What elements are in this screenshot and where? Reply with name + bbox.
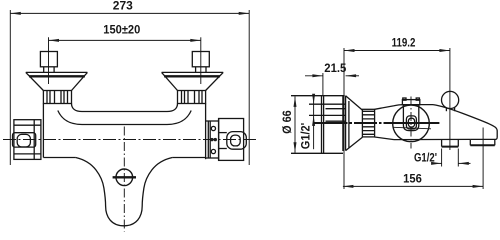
- right end cap grip pill: [227, 132, 247, 150]
- left wall union stem cap: [40, 52, 57, 67]
- knob / shower outlet axis extension: [449, 48, 451, 150]
- spout outlet nozzle block: [469, 139, 471, 145]
- dimension 150±20 arrow right: [190, 39, 201, 42]
- svg-text:119.2: 119.2: [392, 35, 416, 49]
- right end cap grip inner pill: [231, 135, 241, 146]
- right end cap grip horizontals: [219, 132, 227, 134]
- side body crosshair bold: [391, 122, 439, 124]
- right union nut: [178, 91, 206, 104]
- cartridge inner rounded rect: [408, 118, 414, 127]
- body top slope to spout tip: [433, 105, 497, 140]
- dimension 273 line: [10, 10, 249, 165]
- right end cap outer rect: [219, 119, 244, 161]
- dimension 119.2 line: [344, 48, 450, 189]
- left wall union stem neck: [43, 67, 45, 73]
- right union nut knurl lines: [182, 91, 203, 104]
- dimension 21.5 arrows: [312, 74, 323, 77]
- cartridge pill: [403, 105, 418, 131]
- right escutcheon flange slants: [162, 72, 178, 90]
- dimension Ø66 line segments: [294, 96, 296, 152]
- bell cover bottom edge (with Ø66 bottom extension): [291, 152, 343, 154]
- dimension 150±20 arrow left: [49, 39, 60, 42]
- bell rim verticals: [342, 96, 344, 151]
- dimension 150±20 line: [49, 37, 201, 84]
- cartridge mid rounded rect: [406, 116, 416, 129]
- cartridge vertical centerline: [410, 97, 412, 149]
- G1/2 shower outlet callout: [432, 149, 471, 167]
- left union nut knurl lines: [47, 91, 68, 104]
- seam chord: [394, 127, 432, 129]
- left end cap divider: [33, 120, 35, 160]
- diverter knob collar: [445, 108, 447, 112]
- right end ring screws: [211, 126, 215, 130]
- svg-text:21.5: 21.5: [324, 61, 346, 75]
- dimension 273 extension line right: [248, 10, 250, 165]
- union ring band: [362, 109, 374, 137]
- svg-text:150±20: 150±20: [103, 23, 140, 37]
- left escutcheon flange top: [26, 71, 88, 73]
- dimension 150±20 extension/centerline left stem: [48, 37, 50, 84]
- dimension 273 arrow right: [239, 12, 250, 15]
- wall plate (escutcheon disc): [321, 96, 323, 154]
- dimension 21.5 extension left: [322, 73, 324, 96]
- body bottom edge: [394, 138, 470, 140]
- aerator crosshair bold: [113, 176, 136, 178]
- cartridge cap: [402, 100, 419, 105]
- cone slants: [346, 96, 363, 110]
- right end ring verticals: [207, 121, 209, 158]
- left union nut: [43, 91, 71, 104]
- left valve column outer edge: [42, 104, 44, 158]
- diverter knob: [442, 91, 459, 108]
- right escutcheon flange top: [162, 71, 224, 73]
- shared long extension line (119.2 & 156 left): [343, 48, 345, 189]
- svg-text:273: 273: [113, 0, 133, 13]
- right valve column outer edge: [205, 104, 207, 160]
- left escutcheon flange bold edge: [29, 75, 85, 77]
- cartridge big circle: [393, 105, 430, 142]
- wall union pipe lines: [309, 103, 346, 105]
- dimension 119.2 arrow left: [344, 49, 355, 52]
- right escutcheon flange bold edge: [164, 75, 220, 77]
- dimension 150±20 extension/centerline right stem: [200, 37, 202, 84]
- left escutcheon flange slants: [26, 72, 44, 90]
- G1/2 wall thread callout arrows: [313, 95, 315, 149]
- left end cap outer rect: [14, 120, 41, 160]
- right end ring top/bottom: [206, 120, 219, 122]
- dimension 273 arrow left: [10, 12, 20, 15]
- left end cap grip bar: [13, 133, 36, 147]
- svg-text:G1/2': G1/2': [298, 123, 312, 150]
- body bar bottom edge right: [172, 157, 205, 159]
- svg-text:Ø 66: Ø 66: [280, 110, 294, 134]
- dimension 156 line: [343, 128, 483, 190]
- left end cap inner horizontals: [15, 124, 41, 126]
- dimension Ø66 arrows: [294, 96, 297, 107]
- dimension 156 extension right (spout outlet axis): [482, 128, 484, 190]
- dimension 273 extension line left: [9, 10, 11, 165]
- spout outline: [76, 158, 173, 226]
- dimension 119.2 arrow right: [439, 49, 450, 52]
- dimension 156 arrows: [343, 185, 354, 188]
- body neck top edge: [375, 105, 433, 110]
- svg-text:156: 156: [403, 172, 422, 186]
- bell cover top edge (with Ø66 top extension): [291, 95, 345, 97]
- body neck bottom edge: [375, 137, 394, 140]
- bridge bottom edge: [58, 111, 191, 125]
- right wall union stem neck: [195, 67, 197, 73]
- horizontal centerline of body: [3, 139, 256, 141]
- aerator circle: [116, 169, 133, 186]
- right wall union stem cap: [192, 52, 209, 67]
- bridge top edge: [72, 104, 178, 112]
- svg-text:G1/2': G1/2': [414, 150, 437, 164]
- side body horizontal centerline bold dash-dot: [314, 122, 392, 124]
- left end cap grip knob: [17, 134, 30, 147]
- dimension 21.5 line + outside arrows: [305, 73, 359, 96]
- vertical centerline of spout: [123, 127, 125, 232]
- shower outlet block: [441, 139, 443, 146]
- body bar bottom edge left: [43, 157, 75, 159]
- union ring band knurl lines: [362, 111, 374, 134]
